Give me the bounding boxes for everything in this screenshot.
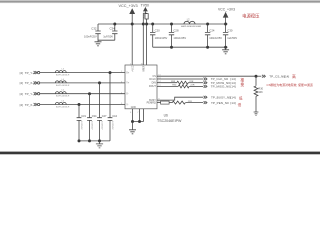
svg-text:100nF/25V: 100nF/25V: [155, 36, 168, 40]
svg-text:100nF/25V: 100nF/25V: [84, 34, 97, 38]
svg-text:TP_Y-: TP_Y-: [25, 92, 33, 96]
svg-text:[4]: [4]: [20, 71, 24, 75]
svg-text:C47: C47: [102, 114, 107, 118]
svg-text:低: 低: [238, 102, 242, 107]
svg-text:ASPI-0630LR: ASPI-0630LR: [56, 84, 70, 87]
svg-text:TP_BUSY_N0: TP_BUSY_N0: [211, 95, 231, 99]
svg-text:U6: U6: [164, 113, 168, 117]
svg-text:DIN: DIN: [152, 82, 156, 85]
svg-text:DCLK: DCLK: [149, 78, 156, 81]
svg-text:102/50V: 102/50V: [101, 121, 103, 130]
svg-text:TP_MISO_N0: TP_MISO_N0: [211, 85, 231, 89]
svg-text:C30: C30: [227, 28, 233, 32]
svg-text:ASPI-0630LR-100M: ASPI-0630LR-100M: [181, 25, 201, 28]
svg-text:100nF/25V: 100nF/25V: [209, 36, 222, 40]
svg-text:10K: 10K: [258, 91, 263, 94]
svg-text:PENIRQ: PENIRQ: [147, 102, 156, 105]
svg-text:Y-: Y-: [126, 104, 128, 106]
svg-text:高: 高: [292, 74, 296, 79]
svg-text:TP_X-: TP_X-: [25, 103, 34, 107]
svg-text:100nF/25V: 100nF/25V: [173, 36, 186, 40]
svg-text:C20: C20: [155, 28, 161, 32]
svg-text:L2: L2: [187, 19, 190, 22]
svg-text:[14]: [14]: [230, 101, 235, 105]
svg-text:X+: X+: [126, 72, 130, 74]
svg-text:TSC2046EIPW: TSC2046EIPW: [157, 119, 182, 123]
svg-text:VREF: VREF: [143, 65, 145, 72]
svg-text:X-: X-: [126, 94, 129, 96]
svg-text:TV50: TV50: [141, 3, 149, 7]
svg-text:TP_CS_N0: TP_CS_N0: [269, 75, 285, 79]
svg-text:TP_Y+: TP_Y+: [25, 71, 35, 75]
svg-text:TP_X+: TP_X+: [25, 81, 35, 85]
svg-text:C34: C34: [110, 26, 116, 30]
svg-text:1uF/50V: 1uF/50V: [227, 36, 237, 40]
svg-text:C28: C28: [173, 28, 179, 32]
svg-text:ASPI-0630LR: ASPI-0630LR: [56, 106, 70, 109]
svg-text:C32: C32: [91, 26, 97, 30]
svg-text:[4]: [4]: [20, 103, 24, 107]
svg-text:22R: 22R: [188, 101, 192, 103]
svg-text:DOUT: DOUT: [149, 85, 156, 88]
svg-text:C24: C24: [209, 28, 215, 32]
svg-text:1uF/50V: 1uF/50V: [103, 34, 113, 38]
svg-text:102/50V: 102/50V: [91, 121, 93, 130]
svg-text:挽: 挽: [240, 82, 244, 87]
svg-text:C34: C34: [92, 114, 97, 118]
svg-text:+VCC: +VCC: [132, 65, 134, 72]
svg-text:[14]: [14]: [230, 85, 235, 89]
svg-text:C44: C44: [112, 114, 117, 118]
svg-text:22R: 22R: [189, 81, 193, 83]
svg-text:VCC_+3V3: VCC_+3V3: [218, 8, 235, 12]
svg-text:22R: 22R: [190, 85, 194, 87]
svg-text:ASPI-0630LR: ASPI-0630LR: [56, 74, 70, 77]
svg-text:6: 6: [130, 112, 132, 114]
svg-text:GND: GND: [131, 107, 136, 109]
svg-text:电源稳压: 电源稳压: [242, 13, 260, 20]
svg-text:[14]: [14]: [284, 75, 289, 79]
svg-text:VCC_+3V3: VCC_+3V3: [119, 4, 138, 8]
svg-text:[14]: [14]: [230, 95, 235, 99]
svg-text:[4]: [4]: [20, 81, 24, 85]
svg-text:TP_PEN_N0: TP_PEN_N0: [211, 101, 229, 105]
svg-text:102/50V: 102/50V: [111, 121, 113, 130]
svg-text:CS脚拉为电源对地有效, 使能IO通道: CS脚拉为电源对地有效, 使能IO通道: [267, 82, 313, 87]
svg-text:102/50V: 102/50V: [80, 121, 82, 130]
svg-text:低: 低: [239, 95, 243, 100]
svg-text:7: 7: [137, 112, 139, 114]
svg-text:Y+: Y+: [126, 83, 130, 85]
svg-text:[4]: [4]: [20, 92, 24, 96]
svg-text:C31: C31: [81, 114, 86, 118]
svg-text:ASPI-0630LR: ASPI-0630LR: [56, 95, 70, 98]
